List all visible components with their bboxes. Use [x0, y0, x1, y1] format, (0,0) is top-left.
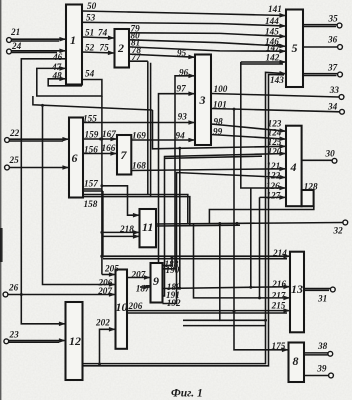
terminal 35 — [337, 23, 342, 28]
svg-text:75: 75 — [100, 43, 110, 53]
wire block 11 out to terminal 32 — [156, 222, 343, 226]
block 2 — [115, 29, 130, 68]
terminal 39 — [329, 373, 334, 378]
block 12 — [66, 302, 83, 380]
vertical from 148-line down to 216-line — [179, 148, 181, 288]
svg-text:142: 142 — [266, 53, 280, 63]
svg-text:7: 7 — [121, 148, 128, 162]
svg-text:48: 48 — [52, 71, 63, 81]
svg-text:216: 216 — [271, 279, 286, 289]
wire 189 to 216 — [163, 286, 290, 290]
svg-text:207: 207 — [131, 270, 146, 280]
wire 79 to 145 — [129, 33, 286, 37]
wire 54 feedback to 47 — [37, 68, 102, 96]
wire 99 to 124 — [211, 135, 286, 140]
svg-text:99: 99 — [213, 127, 223, 137]
svg-text:35: 35 — [328, 14, 339, 24]
svg-text:22: 22 — [9, 128, 20, 138]
wire output 37 — [303, 74, 338, 76]
wire 50 to 141 — [82, 11, 286, 16]
block 9 — [151, 263, 163, 303]
scan edge artifact left — [0, 0, 1, 400]
svg-text:94: 94 — [176, 131, 186, 141]
terminal 26 — [3, 292, 8, 297]
svg-text:46: 46 — [52, 52, 63, 62]
wire 143 from block 12 loop — [83, 72, 286, 366]
wire 191 from block 9 up to 120 — [163, 154, 286, 297]
wire 168 to 121 — [131, 169, 285, 171]
svg-text:25: 25 — [9, 155, 20, 165]
block 128 extension — [302, 190, 314, 206]
wire 159/167 — [83, 138, 117, 141]
svg-text:217: 217 — [271, 291, 286, 301]
terminal 37 — [338, 72, 343, 77]
svg-text:3: 3 — [199, 93, 206, 107]
terminal 38 — [328, 351, 333, 356]
wire 206 block10 to 215 — [127, 311, 290, 313]
wire 156/166 — [83, 153, 117, 155]
svg-text:190: 190 — [166, 265, 180, 275]
wire 80 to 148 — [129, 40, 286, 47]
wire 53 to 144 — [82, 22, 286, 26]
terminal 34 — [340, 109, 345, 114]
wire 218 into block 11 — [100, 231, 139, 237]
svg-text:6: 6 — [72, 151, 78, 165]
svg-text:10: 10 — [116, 300, 128, 314]
wire 214 thick from channel to block 13 — [100, 255, 289, 259]
svg-text:205: 205 — [104, 264, 119, 274]
wire to 217 — [194, 224, 290, 300]
wire 142 from x=240.8 riser — [241, 62, 286, 64]
svg-text:37: 37 — [327, 63, 338, 73]
svg-text:38: 38 — [317, 341, 328, 351]
wire to 127 — [260, 196, 286, 198]
wire output 30 — [302, 159, 333, 161]
svg-text:31: 31 — [317, 294, 327, 304]
terminal 25 — [5, 165, 10, 170]
svg-text:53: 53 — [86, 13, 96, 23]
svg-text:23: 23 — [9, 330, 20, 340]
svg-text:206: 206 — [128, 301, 143, 311]
svg-text:187: 187 — [136, 283, 150, 293]
svg-text:202: 202 — [95, 318, 110, 328]
svg-text:96: 96 — [179, 68, 189, 78]
block 1 — [66, 5, 82, 85]
svg-text:52: 52 — [85, 43, 95, 53]
wire channel branch into block 11 top input — [100, 184, 139, 215]
block 3 — [195, 55, 211, 146]
wire 101-junction down to 175 into block 8 — [233, 109, 289, 350]
wire 158 pair from block 6 wrapping to 32 line — [83, 195, 190, 226]
svg-text:11: 11 — [142, 220, 153, 234]
svg-text:127: 127 — [266, 191, 280, 201]
svg-text:30: 30 — [325, 149, 336, 159]
wire 100 to terminal 33 — [211, 94, 339, 98]
wire 169 to 94 — [131, 139, 195, 141]
wire input 25 — [10, 167, 69, 169]
wire 207 block10 to block 9 — [127, 278, 150, 288]
svg-text:101: 101 — [213, 100, 227, 110]
svg-text:156: 156 — [84, 145, 98, 155]
svg-text:121: 121 — [266, 161, 280, 171]
svg-text:145: 145 — [265, 27, 279, 37]
wire output 36 — [303, 46, 338, 48]
vertical channel x=102 from block1 loop down to block 10 — [100, 96, 103, 275]
wire 192 from block 9 up to 122 — [163, 173, 286, 304]
svg-text:125: 125 — [268, 137, 282, 147]
terminal 33 — [339, 95, 344, 100]
svg-text:26: 26 — [8, 283, 19, 293]
svg-text:97: 97 — [177, 84, 187, 94]
wire output 35 — [303, 25, 337, 27]
svg-text:54: 54 — [85, 69, 95, 79]
svg-text:100: 100 — [214, 84, 228, 94]
wire 188 stub from block 9 — [163, 256, 174, 265]
wire from block 9 top up to 97 — [159, 94, 195, 263]
wire 81 to 147 — [129, 47, 286, 51]
wire 155 to 93 — [83, 122, 195, 124]
svg-text:155: 155 — [83, 114, 97, 124]
wire 46 / vertical to block 12 — [21, 59, 66, 324]
svg-text:5: 5 — [292, 41, 298, 55]
block 7 — [117, 135, 131, 175]
svg-text:39: 39 — [316, 364, 327, 374]
svg-text:33: 33 — [329, 85, 340, 95]
svg-text:74: 74 — [98, 28, 108, 38]
wire 128 block loop — [209, 206, 313, 223]
svg-text:1: 1 — [70, 33, 76, 47]
wire to 126 — [241, 62, 286, 188]
svg-text:158: 158 — [84, 199, 98, 209]
terminal 23 — [4, 339, 9, 344]
vertical from 32-line down to line 320 — [183, 224, 267, 326]
vertical from 127-line down to 217-line — [259, 197, 261, 298]
svg-text:157: 157 — [84, 179, 98, 189]
svg-text:24: 24 — [11, 41, 22, 51]
svg-text:214: 214 — [272, 248, 287, 258]
svg-text:143: 143 — [270, 75, 284, 85]
svg-text:21: 21 — [10, 27, 20, 37]
svg-text:168: 168 — [132, 161, 146, 171]
svg-text:144: 144 — [265, 16, 279, 26]
svg-text:120: 120 — [268, 147, 282, 157]
svg-text:169: 169 — [132, 131, 146, 141]
svg-text:51: 51 — [85, 28, 94, 38]
terminal 32 — [343, 220, 348, 225]
terminal 22 — [5, 138, 10, 143]
terminal 24 — [7, 49, 12, 54]
svg-text:9: 9 — [153, 274, 159, 288]
wire to 125 — [153, 110, 286, 150]
vertical from 126-line down to 216-line — [250, 188, 252, 287]
wire output 38 — [304, 353, 328, 355]
block 10 — [116, 270, 128, 349]
wire feedback to 48 — [48, 79, 82, 86]
svg-text:36: 36 — [327, 35, 338, 45]
svg-text:166: 166 — [102, 143, 116, 153]
wire 157 pair from block 6 into channel — [83, 189, 103, 191]
svg-text:8: 8 — [293, 354, 299, 368]
terminal 30 — [332, 158, 337, 163]
svg-text:93: 93 — [178, 112, 188, 122]
wire 205 from channel into block 10 — [102, 274, 115, 276]
svg-text:12: 12 — [69, 334, 81, 348]
svg-text:218: 218 — [119, 224, 134, 234]
svg-text:50: 50 — [87, 1, 97, 11]
wire input 26 to block 10 pin 207 — [8, 293, 115, 296]
block 6 — [69, 118, 83, 198]
svg-text:77: 77 — [132, 52, 142, 62]
svg-text:122: 122 — [266, 171, 280, 181]
svg-text:95: 95 — [177, 48, 187, 58]
wire 51/74 — [82, 37, 114, 38]
svg-text:Фиг. 1: Фиг. 1 — [171, 388, 203, 400]
block 5 — [286, 10, 303, 88]
svg-text:192: 192 — [167, 298, 181, 308]
block 13 — [290, 252, 304, 333]
svg-text:167: 167 — [102, 129, 116, 139]
svg-text:141: 141 — [268, 4, 282, 14]
svg-text:34: 34 — [327, 102, 338, 112]
wire input 21 — [12, 39, 66, 41]
svg-text:207: 207 — [97, 286, 112, 296]
wire down to 206 of block 10 — [41, 104, 115, 285]
wire 98 to 123 — [211, 124, 286, 131]
svg-text:2: 2 — [117, 41, 124, 55]
wire input 24 — [12, 51, 66, 53]
wire 101 to terminal 34 — [211, 108, 340, 112]
wire input 22 — [10, 139, 69, 141]
block 8 — [289, 343, 305, 383]
wire input 23 — [9, 341, 66, 343]
wire output 31 — [304, 289, 331, 291]
terminal 31 — [330, 287, 335, 292]
svg-text:124: 124 — [268, 128, 282, 138]
svg-text:98: 98 — [214, 117, 224, 127]
svg-text:215: 215 — [271, 301, 286, 311]
wire 78 to 95 — [129, 54, 195, 57]
svg-text:32: 32 — [333, 226, 344, 236]
svg-text:126: 126 — [266, 181, 280, 191]
wire 202 branch into block 10 — [98, 329, 115, 365]
wire 52/75 — [82, 52, 114, 53]
block 11 — [140, 209, 157, 247]
terminal 21 — [7, 38, 12, 43]
svg-text:147: 147 — [266, 43, 280, 53]
svg-text:13: 13 — [291, 282, 303, 296]
wire 190 from block 9 up to 96 — [163, 76, 195, 269]
svg-text:159: 159 — [85, 130, 99, 140]
wire output 39 — [304, 375, 329, 377]
svg-text:175: 175 — [272, 341, 286, 351]
block 4 — [286, 126, 302, 207]
svg-text:4: 4 — [290, 160, 297, 174]
terminal 36 — [338, 45, 343, 50]
wire long line below block 1 loops — [33, 96, 153, 110]
wire 77 down the x=148 channel — [129, 61, 151, 196]
svg-text:128: 128 — [304, 182, 318, 192]
